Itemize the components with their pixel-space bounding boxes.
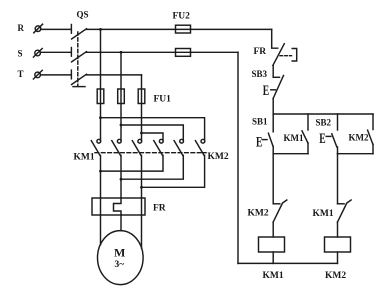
wire FR to motor left bbox=[100, 215, 102, 245]
svg-text:FU2: FU2 bbox=[173, 12, 191, 22]
svg-text:KM1: KM1 bbox=[313, 209, 334, 219]
svg-text:FR: FR bbox=[153, 204, 166, 214]
contactor KM2 main contact pole4 bbox=[159, 139, 163, 143]
wire S from QS through FU2 to return drop bbox=[86, 51, 238, 53]
wire branch1 bottom bus bbox=[273, 153, 308, 155]
thermal relay FR trip symbol bracket bbox=[292, 49, 297, 62]
svg-text:R: R bbox=[18, 23, 25, 33]
wire S terminal to QS bbox=[41, 51, 71, 53]
switch QS pole 2 bbox=[70, 48, 72, 57]
wire drop phase A through FU1 to pole1 bbox=[100, 29, 102, 140]
linkage dashed line KM1-KM2 bbox=[95, 152, 206, 154]
svg-text:KM1: KM1 bbox=[74, 153, 95, 163]
svg-text:E: E bbox=[256, 133, 262, 150]
wire SB3 to top bus bbox=[272, 99, 274, 114]
wire coil KM2 to bottom bus bbox=[337, 252, 339, 263]
thermal relay FR trip linkage dashes bbox=[280, 55, 292, 57]
stop button SB3 NC contact bbox=[273, 76, 279, 78]
node H2 junction dot bbox=[120, 124, 123, 127]
svg-text:3~: 3~ bbox=[115, 260, 125, 270]
node A junction dot bbox=[99, 28, 102, 31]
fuse FU2-2 bbox=[176, 49, 191, 57]
terminal R (circle with slash) bbox=[35, 26, 41, 32]
svg-text:FR: FR bbox=[254, 47, 267, 57]
svg-text:T: T bbox=[18, 69, 24, 79]
contactor KM2 main contact pole5 bbox=[180, 139, 184, 143]
wire A through FR box bbox=[100, 198, 102, 215]
interlock KM1 NC contact bbox=[338, 203, 345, 205]
node B1 junction dot bbox=[99, 170, 102, 173]
svg-text:KM1: KM1 bbox=[263, 271, 284, 281]
wire control feed drop from R bbox=[272, 29, 278, 48]
wire branch1 down to interlock bbox=[272, 154, 274, 204]
contactor KM2 aux NO contact bbox=[372, 114, 374, 130]
wire control return from S bbox=[237, 52, 239, 263]
coil KM2 bbox=[325, 237, 351, 252]
wire T from QS to drop C bbox=[86, 74, 141, 76]
svg-text:KM2: KM2 bbox=[248, 209, 269, 219]
wire R from QS through FU2 to control drop bbox=[86, 28, 271, 30]
start button SB2 NO contact bbox=[337, 114, 339, 130]
thermal relay FR heater box bbox=[92, 198, 145, 215]
svg-text:SB2: SB2 bbox=[316, 118, 332, 128]
fuse FU1-2 bbox=[118, 89, 125, 104]
fuse FU1-3 bbox=[138, 89, 145, 104]
wire C through FR box bbox=[141, 198, 143, 215]
wire pole3 bottom to FR bbox=[141, 155, 143, 198]
coil KM1 bbox=[259, 237, 285, 252]
terminal T (circle with slash) bbox=[35, 72, 41, 78]
motor M 3~ bbox=[98, 231, 144, 285]
node B junction dot bbox=[120, 51, 123, 54]
svg-text:M: M bbox=[114, 246, 125, 260]
contactor KM1 aux NO contact bbox=[307, 114, 309, 130]
node H1 junction dot bbox=[99, 116, 102, 119]
switch QS pole 3 bbox=[70, 70, 72, 79]
svg-text:QS: QS bbox=[77, 9, 89, 19]
wire branch2 down to interlock bbox=[337, 154, 339, 204]
wire FR contact to SB3 bbox=[272, 65, 274, 77]
terminal S (circle with slash) bbox=[35, 50, 41, 56]
svg-text:S: S bbox=[18, 48, 23, 58]
wire branch2 bottom bus bbox=[338, 153, 374, 155]
svg-text:FU1: FU1 bbox=[154, 95, 172, 105]
wire T terminal to QS bbox=[41, 74, 71, 76]
svg-text:E: E bbox=[319, 130, 325, 147]
node B3 junction dot bbox=[140, 186, 143, 189]
wire bridge pole5 to phase B bbox=[121, 155, 183, 179]
svg-text:E: E bbox=[263, 82, 269, 99]
svg-text:KM2: KM2 bbox=[325, 271, 346, 281]
switch QS linkage dashed bar bbox=[77, 32, 79, 86]
wire coil KM1 to bottom bus bbox=[272, 252, 274, 263]
wire drop phase C through FU1 to pole3 bbox=[141, 75, 143, 141]
thermal relay FR NC contact blade bbox=[273, 44, 284, 66]
interlock KM2 NC contact bbox=[273, 203, 280, 205]
fuse FU2-1 bbox=[176, 25, 191, 33]
wire crossover H3 phase C to KM2 pole4 bbox=[142, 133, 164, 141]
wire drop phase B through FU1 to pole2 bbox=[120, 52, 122, 140]
wire control top bus bbox=[273, 113, 373, 115]
wire pole1 bottom to FR bbox=[100, 155, 102, 198]
wire R terminal to QS bbox=[41, 28, 71, 30]
start button SB1 NO contact bbox=[272, 114, 274, 132]
thermal relay FR heater element bbox=[114, 198, 122, 215]
wire interlock to coil KM2 bbox=[337, 222, 339, 237]
svg-text:KM2: KM2 bbox=[208, 152, 229, 162]
wire bridge pole6 to phase C bbox=[142, 155, 205, 187]
wire interlock to coil KM1 bbox=[272, 222, 274, 237]
contactor KM1 main contact pole2 bbox=[117, 139, 121, 143]
svg-text:SB3: SB3 bbox=[252, 69, 268, 79]
wire FR to motor right bbox=[141, 215, 143, 248]
wire control bottom bus bbox=[238, 262, 338, 264]
svg-text:SB1: SB1 bbox=[252, 117, 268, 127]
wire FR to motor centre bbox=[120, 215, 122, 231]
wire bridge pole4 to phase A bbox=[101, 155, 164, 171]
contactor KM1 main contact pole1 bbox=[97, 139, 101, 143]
wire crossover H1 phase A to KM2 pole6 bbox=[101, 118, 205, 141]
node B2 junction dot bbox=[120, 178, 123, 181]
fuse FU1-1 bbox=[97, 89, 104, 104]
wire pole2 bottom to FR bbox=[120, 155, 122, 198]
svg-text:KM2: KM2 bbox=[349, 133, 369, 143]
svg-text:KM1: KM1 bbox=[284, 133, 304, 143]
contactor KM1 main contact pole3 bbox=[138, 139, 142, 143]
wire crossover H2 phase B to KM2 pole5 bbox=[121, 125, 183, 141]
switch QS pole 1 bbox=[70, 25, 72, 34]
contactor KM2 main contact pole6 bbox=[201, 139, 205, 143]
node H3 junction dot bbox=[140, 132, 143, 135]
